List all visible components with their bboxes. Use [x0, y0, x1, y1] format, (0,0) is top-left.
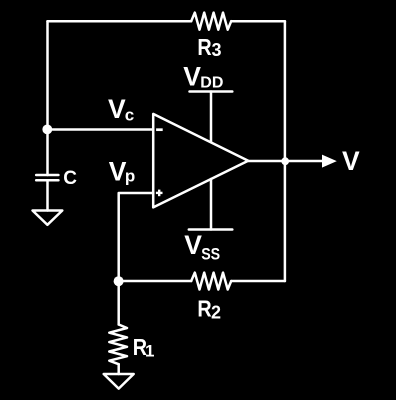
power VSS bar and stem	[189, 179, 233, 230]
wire R1 to ground	[117, 364, 120, 374]
capacitor C	[36, 175, 58, 180]
wire R2 right to right bus	[231, 280, 285, 283]
label VSS	[184, 230, 220, 263]
svg-text:R: R	[197, 34, 211, 60]
node Vc junction	[42, 124, 52, 134]
svg-text:SS: SS	[201, 244, 220, 263]
label R2	[197, 296, 221, 323]
svg-text:3: 3	[212, 40, 222, 60]
label Vc	[108, 94, 134, 124]
resistor R3	[191, 13, 231, 30]
label VDD	[183, 61, 223, 91]
svg-text:C: C	[63, 168, 77, 189]
wire node B down to R1	[117, 281, 120, 325]
power VDD bar and stem	[190, 92, 233, 143]
wire node Vc to op-amp inverting input	[48, 128, 154, 131]
svg-text:V: V	[183, 61, 201, 91]
svg-text:V: V	[108, 94, 126, 124]
svg-text:1: 1	[145, 342, 154, 361]
pin + (non-inverting input)	[156, 190, 163, 197]
wire bottom from node B to R2	[119, 280, 192, 283]
resistor R2	[191, 273, 231, 290]
ground (below R1)	[104, 374, 134, 389]
ground (below C)	[33, 211, 63, 225]
arrowhead of output V	[322, 155, 337, 168]
label Vp	[109, 156, 136, 186]
svg-text:c: c	[125, 105, 134, 124]
label R1	[133, 334, 155, 360]
svg-text:V: V	[184, 230, 202, 260]
wire left vertical from corner to capacitor	[46, 21, 49, 175]
wire R3 right to top-right corner	[231, 20, 285, 23]
resistor R1	[109, 325, 127, 365]
op-amp U1	[153, 114, 248, 207]
label R3	[197, 34, 221, 60]
pin - (inverting input)	[156, 128, 163, 131]
node Vp junction	[114, 276, 124, 286]
svg-text:p: p	[125, 166, 135, 185]
wire right vertical (R3/output/R2 bus)	[284, 21, 287, 281]
wire capacitor to ground	[46, 180, 49, 210]
svg-text:R: R	[197, 296, 211, 322]
wire node Vp to op-amp non-inverting input	[119, 193, 154, 281]
svg-text:DD: DD	[200, 74, 223, 91]
node V output junction	[281, 157, 289, 165]
svg-text:V: V	[342, 146, 360, 176]
wire output from op-amp apex	[248, 160, 323, 163]
wire top-left horizontal from node A to R3	[48, 20, 192, 23]
svg-text:2: 2	[211, 303, 221, 323]
